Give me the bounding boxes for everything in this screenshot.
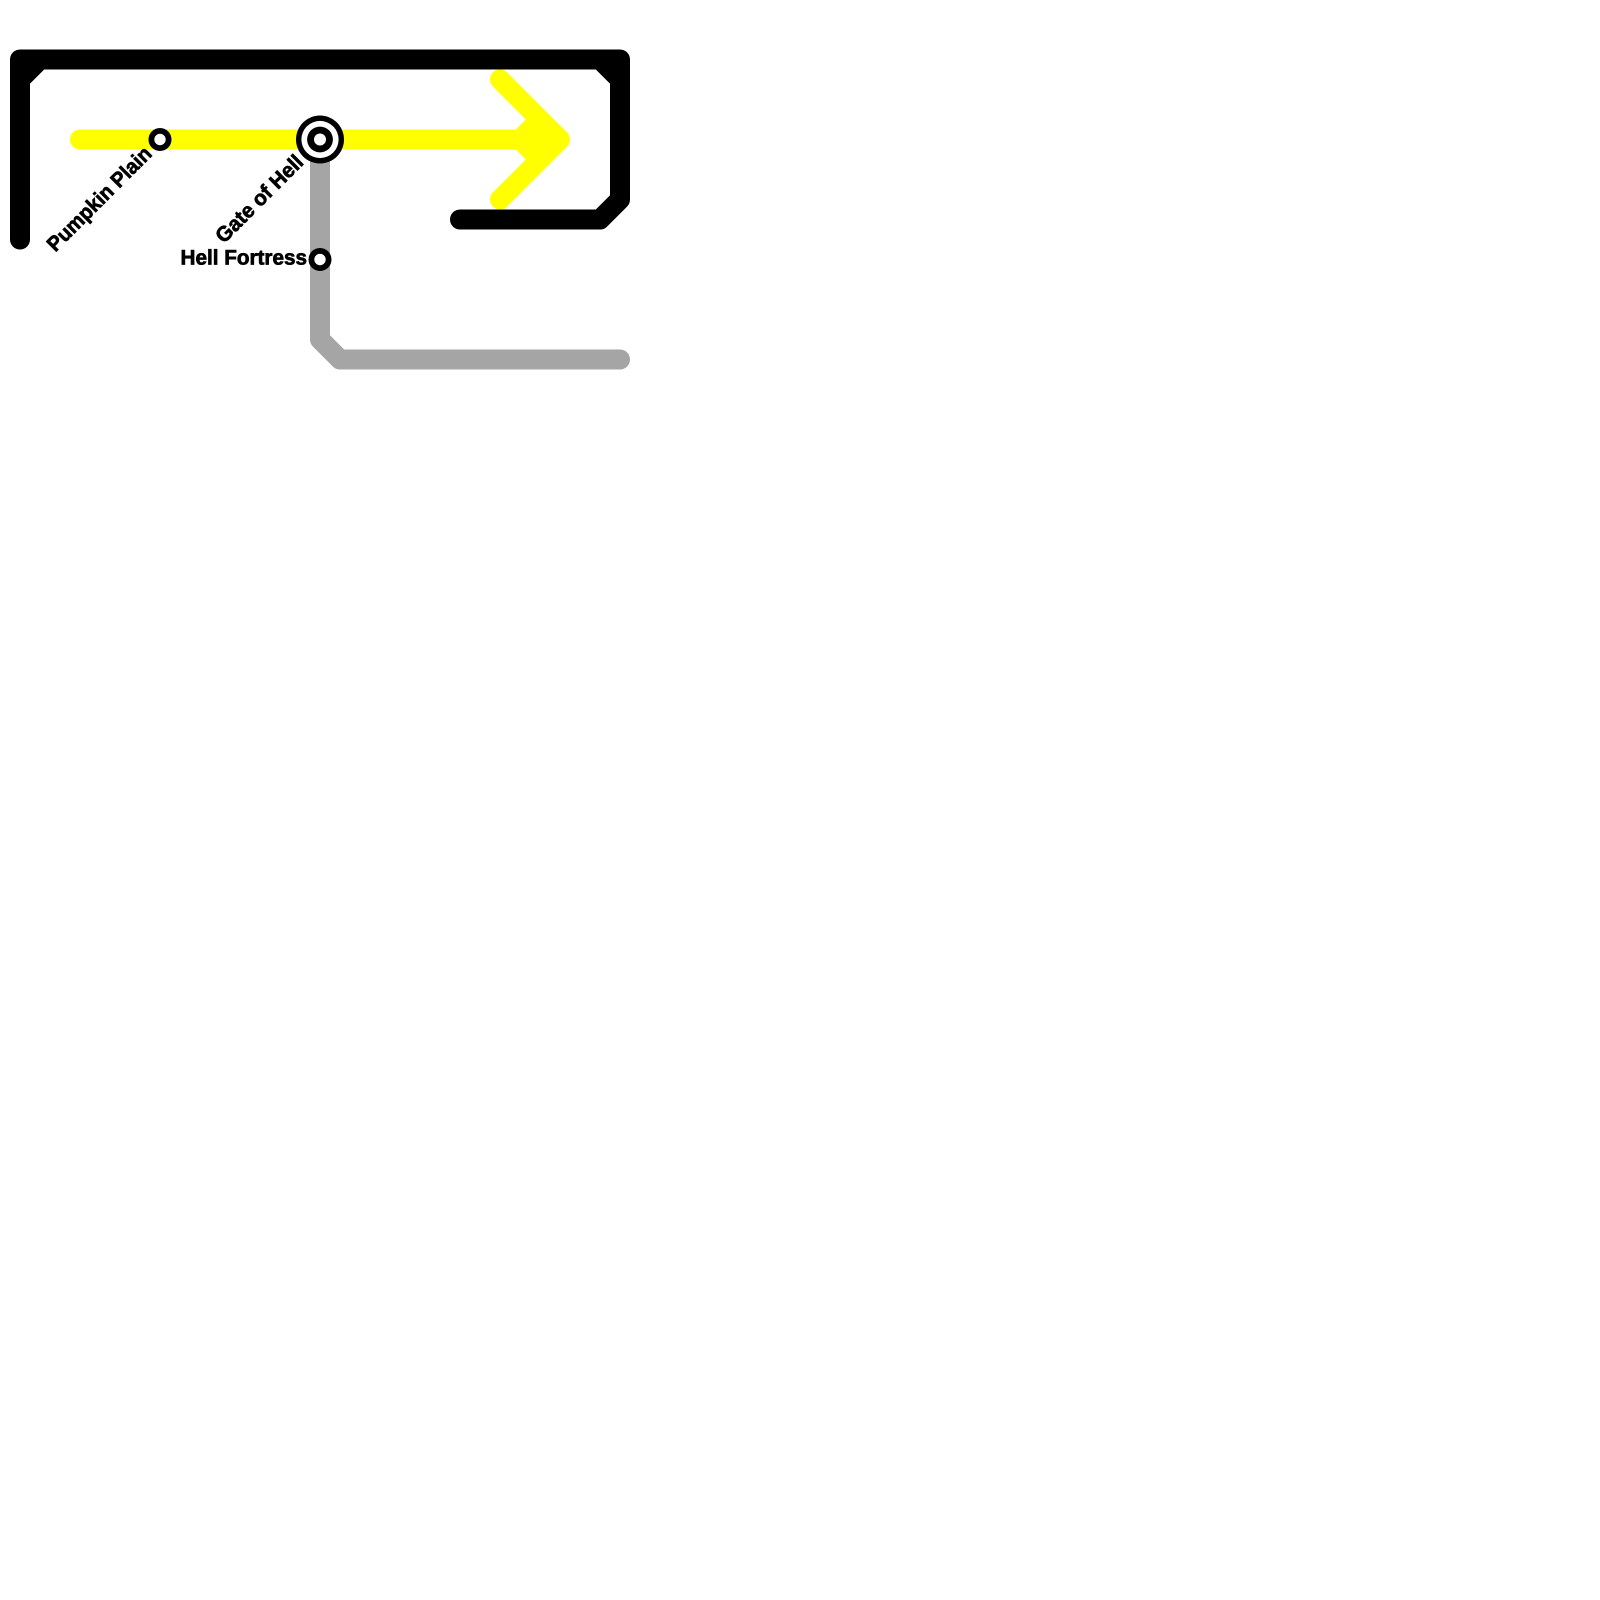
interchange Gate of Hell (296, 116, 344, 164)
yellow junction diagonal lower (520, 140, 540, 160)
yellow junction diagonal upper (520, 120, 540, 140)
gray line (320, 140, 620, 360)
black line corner diagonal top-left (20, 60, 40, 80)
station Pumpkin Plain (151, 131, 168, 148)
svg-text:Hell Fortress: Hell Fortress (181, 247, 308, 270)
yellow arrow chevron (500, 80, 560, 200)
yellow line horizontal (80, 130, 540, 150)
station Hell Fortress (311, 251, 328, 268)
black line main path (20, 60, 620, 240)
black line corner diagonal top-right (600, 60, 620, 80)
